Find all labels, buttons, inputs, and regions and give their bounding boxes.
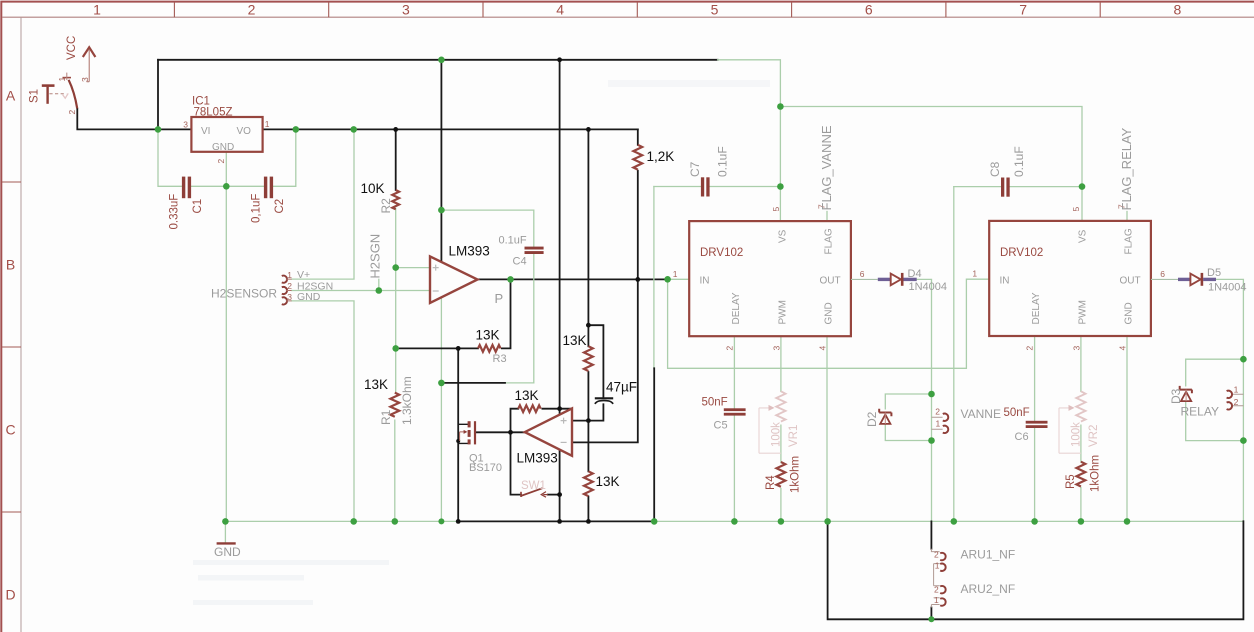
wire comparator-2 output feedback loop [511, 409, 573, 433]
wire P net down from output [502, 279, 511, 348]
wire FLAG1 stub [826, 212, 828, 222]
capacitor C4 [525, 247, 544, 254]
svg-text:V+: V+ [297, 269, 310, 281]
svg-text:C7: C7 [688, 161, 702, 177]
svg-text:DELAY: DELAY [1031, 292, 1042, 324]
resistor R3 [478, 345, 501, 352]
wire C4 top link [441, 210, 533, 247]
wire DELAY2 with C6 to rail [1034, 336, 1036, 522]
wire C8 horizontal [954, 186, 1082, 188]
svg-text:1: 1 [673, 269, 678, 279]
svg-text:D2: D2 [865, 411, 879, 427]
svg-text:DRV102: DRV102 [1000, 247, 1043, 259]
junction H2SGN label [376, 287, 383, 294]
resistor 13K feedback [518, 405, 541, 412]
wire 47uF branch [588, 325, 603, 397]
svg-text:100k: 100k [1071, 422, 1083, 447]
switch S1 [42, 73, 77, 109]
junction D3 loop bottom [1240, 437, 1247, 444]
svg-text:H2SENSOR: H2SENSOR [211, 287, 277, 301]
connector ARU2_NF [931, 586, 945, 608]
frame row dividers [2, 182, 21, 512]
svg-text:C1: C1 [192, 199, 204, 214]
svg-text:78L05Z: 78L05Z [194, 107, 233, 119]
junction rail R1 [392, 518, 399, 525]
svg-text:10K: 10K [361, 181, 385, 196]
junction VI rail at x158 [155, 126, 162, 133]
driver DRV102 first [689, 221, 851, 336]
plus mark LM393-1 [433, 265, 439, 271]
capacitor C6 [1026, 421, 1048, 428]
wire 1,2K top drop [637, 129, 639, 144]
junction VO at x295.8 [293, 126, 300, 133]
resistor R1 [390, 393, 399, 417]
svg-text:DRV102: DRV102 [700, 247, 743, 259]
junction V+ sensor tap x354 [350, 126, 357, 133]
junction R3 left [392, 345, 399, 352]
wire GND symbol stem [224, 521, 226, 542]
connector H2SENSOR [282, 276, 292, 305]
svg-text:50nF: 50nF [702, 396, 728, 408]
wire GND rail black middle section [458, 520, 654, 522]
svg-text:IN: IN [1000, 275, 1010, 286]
svg-text:13K: 13K [596, 474, 620, 489]
connector ARU1_NF [931, 549, 945, 586]
svg-text:4: 4 [556, 2, 564, 18]
svg-text:FLAG: FLAG [824, 228, 835, 254]
junction D3 loop top [1240, 356, 1247, 363]
svg-text:SW1: SW1 [521, 480, 546, 492]
svg-text:D5: D5 [1207, 267, 1221, 279]
svg-text:1kOhm: 1kOhm [790, 456, 802, 493]
svg-text:PWM: PWM [778, 300, 789, 324]
capacitor 47uF [595, 398, 613, 404]
svg-text:1.3kOhm: 1.3kOhm [400, 376, 414, 425]
svg-text:RELAY: RELAY [1181, 405, 1219, 419]
svg-text:13K: 13K [476, 328, 500, 343]
svg-text:50nF: 50nF [1004, 407, 1030, 419]
svg-text:OUT: OUT [1120, 275, 1141, 286]
junction D2 loop bottom [928, 437, 935, 444]
diode D5 [1151, 273, 1216, 286]
svg-text:VR1: VR1 [788, 425, 800, 447]
svg-text:3: 3 [183, 120, 188, 130]
svg-text:VS: VS [1078, 229, 1089, 243]
svg-text:A: A [6, 88, 16, 104]
wire + input LM393-2 to divider [572, 404, 603, 420]
capacitor C5 [724, 408, 746, 415]
svg-text:VANNE: VANNE [961, 407, 1001, 421]
wire comparator-2 output to SW1 [511, 432, 522, 494]
svg-text:C: C [5, 422, 15, 438]
wire H2SENSOR V+ to VI rail [292, 129, 354, 279]
transistor Q1 [458, 421, 476, 444]
regulator IC1 box [191, 117, 262, 152]
svg-text:LM393: LM393 [517, 451, 558, 466]
svg-text:1: 1 [972, 269, 977, 279]
svg-text:2: 2 [935, 406, 940, 416]
power symbol VCC [83, 47, 96, 81]
svg-text:6: 6 [1160, 269, 1165, 279]
junction rail x654 [651, 518, 658, 525]
capacitor C8 [1001, 178, 1010, 197]
junction R2 top tap [393, 127, 398, 132]
wire GND2 pin to rail [1126, 336, 1128, 522]
wire VCC drop to VI rail [157, 60, 159, 130]
svg-text:2: 2 [248, 2, 256, 18]
svg-text:OUT: OUT [820, 275, 841, 286]
svg-text:5: 5 [1071, 207, 1081, 212]
svg-text:C5: C5 [714, 420, 728, 432]
svg-text:D3: D3 [1169, 388, 1183, 404]
junction divider 47uF tap [586, 323, 591, 328]
connector RELAY [1227, 391, 1244, 410]
svg-text:0.1uF: 0.1uF [499, 234, 527, 246]
wire LM393 power vertical x441 [440, 60, 442, 262]
svg-text:VO: VO [237, 126, 252, 137]
wire R3 line [396, 347, 478, 349]
svg-text:1: 1 [265, 119, 270, 129]
wire IC1 VO rail [263, 128, 638, 130]
svg-text:BS170: BS170 [469, 462, 502, 474]
svg-text:0.1uF: 0.1uF [1012, 146, 1026, 177]
wire SW1 to x559 vertical [548, 494, 560, 496]
junction rail DELAY1 [731, 518, 738, 525]
svg-text:GND: GND [297, 291, 321, 303]
wire C4 bottom to LM393-1 V- junction (black) [441, 382, 505, 384]
svg-text:13K: 13K [515, 388, 539, 403]
wire DELAY1 with C5 to rail [733, 336, 735, 521]
svg-text:R5: R5 [1065, 474, 1077, 489]
svg-text:LM393: LM393 [449, 243, 490, 258]
wire x458 vertical R3 to Q1 to rail [457, 348, 459, 521]
svg-text:2: 2 [67, 110, 77, 115]
junction + input R2 [392, 264, 399, 271]
junction SW1 right [557, 492, 562, 497]
wire GND rail green left section [225, 520, 458, 522]
resistor 1,2K [633, 145, 642, 170]
frame left ruler line [20, 17, 22, 632]
wire LM393-1 V- below triangle (green) [440, 297, 442, 521]
wire GND rail green right section [654, 520, 1243, 522]
wire output to DRV1 IN stub (green) [668, 278, 690, 280]
svg-text:3: 3 [1072, 346, 1082, 351]
junction C1 C2 gnd [223, 183, 230, 190]
svg-text:2: 2 [725, 346, 735, 351]
svg-text:3: 3 [80, 77, 90, 82]
svg-text:P: P [495, 291, 504, 306]
ghost text streak 3 [193, 600, 313, 605]
svg-text:1: 1 [1234, 385, 1239, 395]
wire IC1 C1 C2 ground link (green) [158, 129, 296, 521]
svg-text:1: 1 [93, 2, 101, 18]
junction VO rail x588 [586, 127, 591, 132]
op-amp LM393 second comparator [525, 408, 572, 455]
svg-text:R1: R1 [379, 409, 393, 425]
svg-text:R2: R2 [379, 198, 393, 214]
junction rail R4 [778, 518, 785, 525]
svg-text:C2: C2 [274, 199, 286, 214]
junction C4 top x441 [438, 207, 445, 214]
potentiometer VR2 [1059, 391, 1086, 453]
junction C7 right VS1 [777, 183, 784, 190]
driver DRV102 second [989, 221, 1151, 336]
junction output to DRV1 IN [664, 276, 671, 283]
svg-text:47µF: 47µF [606, 380, 637, 395]
svg-text:0.1uF: 0.1uF [716, 146, 730, 177]
svg-text:2: 2 [1025, 346, 1035, 351]
svg-text:0.33uF: 0.33uF [169, 194, 181, 230]
frame column dividers [174, 2, 1100, 17]
svg-text:C6: C6 [1015, 431, 1029, 443]
potentiometer VR1 [759, 391, 786, 453]
junction rail GND symbol [222, 518, 229, 525]
svg-text:H2SGN: H2SGN [368, 234, 383, 279]
svg-text:4: 4 [818, 346, 828, 351]
wire D4 net down to VANNE loop [917, 279, 932, 521]
svg-text:2: 2 [287, 281, 292, 291]
resistor 13K divider bottom [584, 471, 593, 496]
diode D4 [851, 273, 917, 286]
svg-text:R3: R3 [493, 353, 507, 365]
junction Q1 source arrow [456, 439, 460, 443]
svg-text:FLAG_VANNE: FLAG_VANNE [819, 125, 834, 210]
junction output P net [507, 276, 514, 283]
junction rail x588 [586, 519, 591, 524]
switch SW1 [521, 488, 548, 497]
svg-text:FLAG_RELAY: FLAG_RELAY [1119, 127, 1134, 210]
svg-text:1N4004: 1N4004 [1208, 282, 1247, 294]
svg-text:D: D [5, 587, 15, 603]
wire LM393-1 output line [478, 278, 668, 280]
junction 1,2K output [635, 277, 640, 282]
svg-text:VS: VS [778, 229, 789, 243]
svg-text:4: 4 [1118, 346, 1128, 351]
junction C8 right VS2 [1079, 183, 1086, 190]
wire bottom return loop [828, 521, 1244, 619]
svg-text:1: 1 [287, 270, 292, 280]
wire R2 top black [395, 129, 397, 190]
wire VCC top rail (black) [158, 59, 718, 61]
capacitor C2 [264, 177, 273, 199]
ghost text streak 2 [198, 575, 304, 581]
resistor R4 [777, 462, 786, 487]
resistor 13K divider middle [584, 346, 593, 371]
junction rail sensor gnd [350, 518, 357, 525]
junction rail x559 [557, 519, 562, 524]
ground symbol GND [217, 542, 236, 544]
junction D2 loop top [928, 391, 935, 398]
svg-text:GND: GND [824, 302, 835, 324]
junction ARU bottom loop [928, 616, 934, 622]
svg-text:B: B [6, 257, 15, 273]
minus mark LM393-1 [433, 290, 439, 292]
svg-text:100k: 100k [771, 422, 783, 447]
junction rail x441 [438, 518, 444, 524]
svg-text:DELAY: DELAY [731, 292, 742, 324]
wire GND1 pin to rail [826, 336, 828, 521]
svg-text:ARU2_NF: ARU2_NF [961, 582, 1016, 596]
junction rail GND2 [1124, 518, 1131, 525]
frame top ruler line [2, 16, 1254, 18]
op-amp LM393 first comparator [430, 256, 478, 303]
svg-text:2: 2 [1234, 397, 1239, 407]
svg-text:8: 8 [1174, 2, 1182, 18]
svg-text:GND: GND [214, 545, 241, 559]
junction rail GND1 loop [824, 518, 831, 525]
wire H2SENSOR GND pin to rail [292, 301, 354, 522]
wire C8 left leg to rail [953, 187, 955, 522]
svg-text:2: 2 [216, 159, 226, 164]
junction rail C8 leg [951, 518, 958, 525]
wire + input LM393-1 [396, 267, 430, 269]
svg-text:13K: 13K [364, 377, 388, 392]
svg-text:6: 6 [860, 269, 865, 279]
svg-text:3: 3 [772, 346, 782, 351]
svg-text:C8: C8 [988, 161, 1002, 177]
svg-text:3: 3 [402, 2, 410, 18]
svg-text:5: 5 [771, 207, 781, 212]
resistor R5 [1077, 462, 1086, 487]
junction top rail x559 [557, 57, 562, 62]
junction rail DELAY2 [1031, 518, 1038, 525]
svg-text:1,2K: 1,2K [647, 149, 675, 164]
resistor R2 [392, 190, 399, 209]
junction feedback pullup x559 [557, 406, 562, 411]
svg-text:1: 1 [936, 418, 941, 428]
svg-text:D4: D4 [908, 268, 922, 280]
svg-text:VCC: VCC [66, 36, 78, 60]
ghost text streak 4 [608, 80, 770, 87]
wire VCC green top route to VS pins [718, 60, 1082, 187]
svg-text:2: 2 [934, 550, 939, 560]
svg-text:6: 6 [865, 2, 873, 18]
wire C7 horizontal [654, 186, 781, 188]
svg-text:ARU1_NF: ARU1_NF [961, 547, 1016, 561]
connector VANNE [932, 414, 949, 434]
junction rail x458 [456, 519, 461, 524]
diode D3 [1180, 386, 1192, 401]
wire H2SGN net to - input LM393-1 [292, 290, 430, 292]
svg-text:PWM: PWM [1078, 300, 1089, 324]
junction top rail x441 [438, 57, 445, 64]
svg-text:VI: VI [201, 126, 210, 137]
wire PWM2 through VR2 R5 to rail [1080, 336, 1082, 522]
wire R2 bottom chain green to rail [394, 208, 397, 521]
wire D5 net down right edge [1216, 279, 1243, 521]
capacitor C1 [182, 177, 191, 199]
wire long V+ vertical x559 [559, 60, 561, 522]
junction comparator-2 output [508, 430, 513, 435]
plus mark LM393-2 [561, 418, 567, 424]
wire 1,2K bottom to OUT line and LM393 inverting input [572, 171, 638, 443]
capacitor C7 [701, 177, 710, 196]
wire D2 parallel loop [885, 394, 931, 441]
svg-text:2: 2 [934, 585, 939, 595]
wire ARU chain upper black [930, 521, 932, 548]
svg-text:5: 5 [711, 2, 719, 18]
wire C4 bottom drop [505, 254, 534, 383]
svg-text:7: 7 [1019, 2, 1027, 18]
junction R3 x458 [456, 346, 461, 351]
wire Q1 gate to comparator-2 output [476, 431, 525, 433]
svg-text:1: 1 [934, 595, 939, 605]
junction rail R5 [1078, 518, 1085, 525]
wire ARU chain lower black [930, 608, 932, 620]
svg-text:0,1uF: 0,1uF [251, 194, 263, 223]
wire C7 left leg (green upper) [653, 187, 655, 369]
svg-text:1N4004: 1N4004 [909, 281, 948, 293]
wire S1 pin2 to IC1 VI [77, 109, 191, 130]
wire H2SGN label stub [378, 279, 380, 290]
svg-text:IN: IN [700, 275, 710, 286]
wire VS2 stub [1081, 187, 1083, 221]
svg-text:3: 3 [287, 292, 292, 302]
svg-text:C4: C4 [513, 255, 527, 267]
svg-text:1: 1 [57, 77, 67, 82]
minus mark LM393-2 [561, 441, 567, 443]
svg-text:GND: GND [212, 142, 234, 153]
diode D2 [879, 409, 891, 424]
wire FLAG2 stub [1126, 212, 1128, 221]
junction VCC route x780 [777, 103, 784, 110]
svg-text:1: 1 [935, 560, 940, 570]
svg-text:FLAG: FLAG [1124, 228, 1135, 254]
svg-text:1kOhm: 1kOhm [1090, 455, 1102, 492]
svg-text:R4: R4 [765, 475, 777, 490]
wire VS1 stub [779, 187, 781, 222]
svg-text:13K: 13K [563, 333, 587, 348]
ghost text streak 1 [193, 560, 389, 565]
wire D3 parallel loop [1186, 359, 1244, 440]
svg-text:S1: S1 [29, 89, 41, 103]
junction + input divider [586, 418, 591, 423]
wire C7 left leg (black lower to rail) [653, 368, 655, 521]
wire IN1-IN2 under-route [668, 279, 990, 368]
junction C4 bottom V- [438, 380, 445, 387]
wire divider vertical x588 [587, 129, 589, 521]
svg-text:VR2: VR2 [1088, 425, 1100, 447]
svg-text:GND: GND [1124, 302, 1135, 324]
wire PWM1 through VR1 R4 to rail [780, 336, 782, 521]
